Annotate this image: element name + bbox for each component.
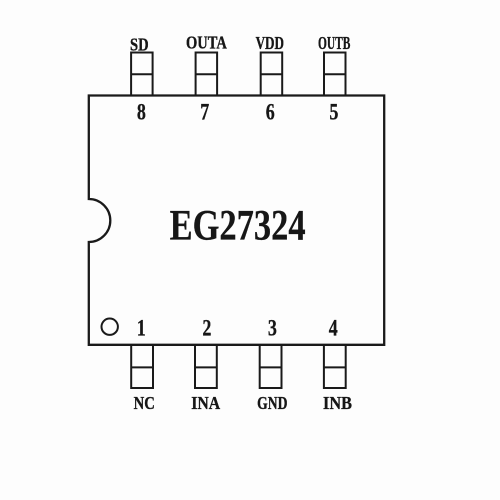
svg-text:OUTA: OUTA [186, 33, 227, 53]
svg-text:VDD: VDD [256, 33, 284, 53]
svg-text:INA: INA [191, 393, 220, 413]
svg-text:2: 2 [202, 315, 211, 341]
svg-text:NC: NC [134, 393, 155, 413]
svg-text:GND: GND [257, 393, 287, 413]
svg-text:1: 1 [137, 315, 146, 341]
svg-text:INB: INB [323, 393, 352, 413]
svg-text:EG27324: EG27324 [170, 201, 306, 249]
svg-text:6: 6 [266, 99, 275, 125]
svg-text:OUTB: OUTB [318, 33, 350, 53]
svg-text:7: 7 [200, 99, 209, 125]
svg-text:8: 8 [137, 99, 146, 125]
svg-text:3: 3 [268, 315, 277, 341]
svg-text:5: 5 [329, 99, 338, 125]
svg-text:SD: SD [130, 34, 149, 54]
svg-text:4: 4 [329, 315, 338, 341]
